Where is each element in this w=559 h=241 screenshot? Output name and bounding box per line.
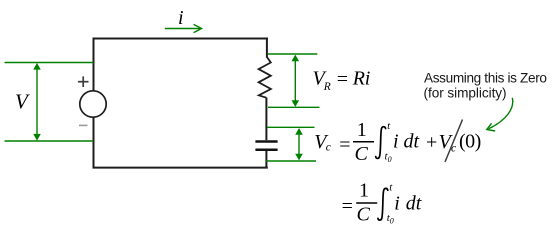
svg-text:dt: dt	[406, 192, 422, 214]
node line: left bottom (green)	[5, 140, 94, 142]
svg-text:i: i	[178, 7, 184, 29]
wire: bottom horizontal	[93, 167, 268, 169]
current arrow i (green)	[165, 24, 202, 32]
svg-text:(for simplicity): (for simplicity)	[424, 86, 507, 101]
voltage arrow Vc (double-headed, green)	[295, 128, 303, 160]
annotation: Assuming this is Zero (for simplicity)	[424, 71, 547, 101]
svg-text:i: i	[365, 68, 371, 90]
svg-text:R: R	[323, 81, 331, 93]
annotation curved arrow (green)	[487, 98, 513, 131]
wire: top horizontal	[93, 38, 268, 40]
svg-text:(0): (0)	[459, 131, 481, 153]
node line: resistor top (green)	[268, 53, 317, 55]
svg-text:t: t	[387, 120, 391, 132]
slash (cancel) through Vc(0)	[445, 120, 463, 163]
svg-text:t0: t0	[385, 150, 392, 164]
wire: left vertical upper (to source top)	[93, 38, 95, 92]
node line: capacitor bottom (green)	[266, 160, 316, 162]
svg-text:R: R	[352, 68, 365, 90]
svg-text:i: i	[393, 131, 399, 153]
svg-text:1: 1	[357, 119, 367, 141]
svg-text:=: =	[339, 134, 350, 156]
svg-text:1: 1	[359, 179, 369, 201]
voltage arrow VR (double-headed, green)	[292, 55, 300, 107]
svg-text:c: c	[326, 142, 331, 154]
capacitor C bottom plate	[255, 149, 277, 152]
svg-text:t0: t0	[387, 212, 394, 226]
wire: capacitor to bottom wire	[265, 151, 267, 169]
integral sign	[376, 127, 386, 159]
formula Vc = (1/C) integral i dt + Vc(0)	[314, 119, 481, 165]
svg-text:=: =	[337, 69, 348, 91]
svg-text:t: t	[389, 182, 393, 194]
svg-text:V: V	[15, 90, 30, 114]
wire: resistor to capacitor	[265, 98, 267, 141]
node line: left top (green)	[5, 62, 94, 64]
node line: resistor bottom (green)	[268, 106, 320, 108]
minus sign of source	[79, 124, 88, 126]
plus sign of source	[78, 76, 89, 87]
voltage arrow V (double-headed, green)	[33, 63, 41, 141]
voltage source V1	[80, 91, 106, 117]
svg-text:=: =	[342, 195, 353, 217]
svg-text:Assuming this is Zero: Assuming this is Zero	[424, 71, 547, 86]
formula VR = Ri	[313, 68, 371, 94]
capacitor C top plate	[255, 140, 277, 143]
formula = (1/C) integral i dt	[342, 179, 422, 225]
svg-text:C: C	[357, 203, 371, 225]
svg-text:dt: dt	[404, 131, 420, 153]
resistor R	[259, 57, 271, 98]
svg-text:+: +	[426, 132, 437, 154]
node line: capacitor top (green)	[267, 126, 315, 128]
svg-text:i: i	[394, 192, 400, 214]
wire: right vertical stub (top corner to resistor)	[266, 38, 268, 58]
wire: left vertical lower (source bottom to bottom wire)	[93, 117, 95, 168]
svg-text:C: C	[355, 143, 369, 165]
